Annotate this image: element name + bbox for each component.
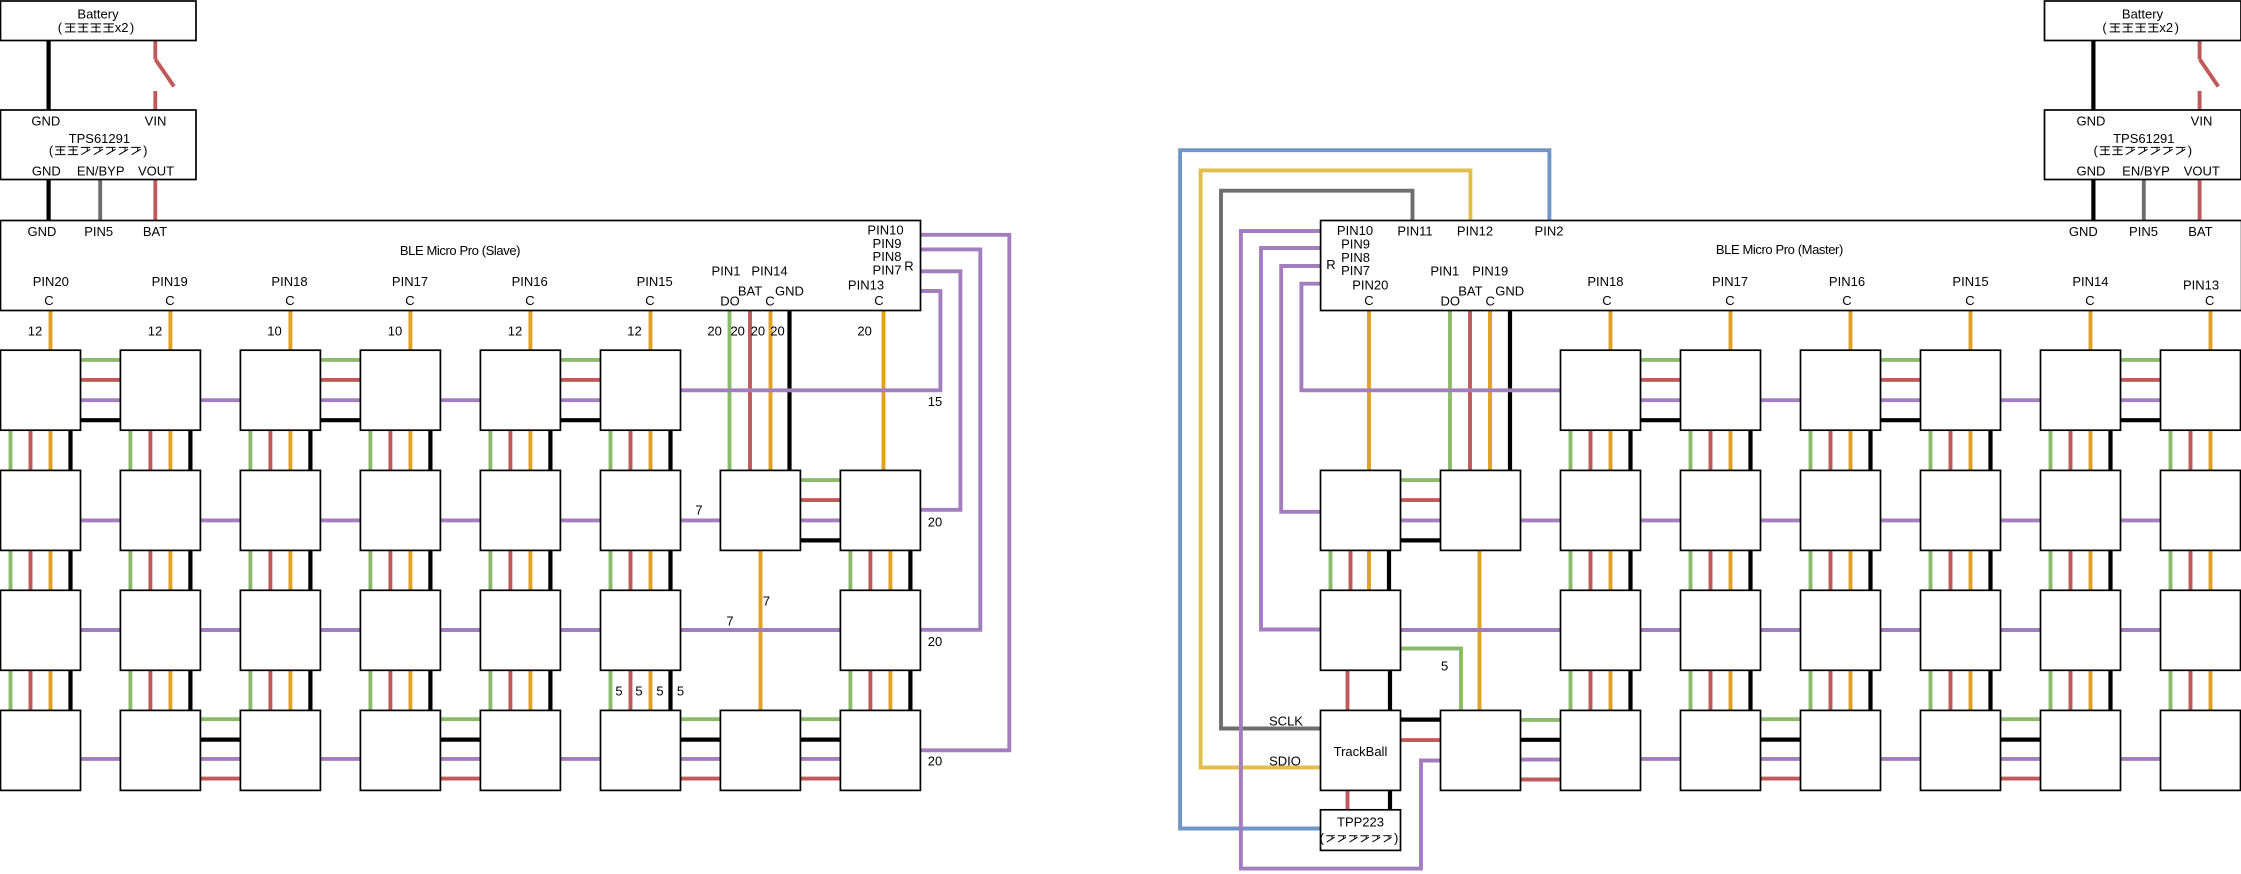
svg-text:10: 10 — [388, 324, 402, 339]
svg-text:PIN1: PIN1 — [1430, 264, 1459, 279]
svg-text:GND: GND — [1495, 284, 1524, 299]
svg-text:BAT: BAT — [143, 224, 167, 239]
svg-text:PIN5: PIN5 — [84, 224, 113, 239]
svg-text:PIN1: PIN1 — [712, 264, 741, 279]
svg-text:C: C — [1725, 293, 1734, 308]
svg-text:): ) — [130, 20, 134, 35]
svg-text:15: 15 — [928, 394, 942, 409]
svg-text:12: 12 — [28, 324, 42, 339]
svg-text:EN/BYP: EN/BYP — [77, 163, 125, 178]
svg-text:PIN18: PIN18 — [271, 274, 307, 289]
svg-text:R: R — [904, 259, 913, 274]
svg-text:C: C — [2085, 293, 2094, 308]
svg-text:): ) — [2188, 143, 2192, 158]
svg-text:C: C — [405, 293, 414, 308]
svg-text:GND: GND — [775, 284, 804, 299]
svg-text:VOUT: VOUT — [2184, 163, 2220, 178]
svg-text:BLE Micro Pro (Master): BLE Micro Pro (Master) — [1716, 242, 1843, 257]
svg-text:7: 7 — [726, 614, 733, 629]
svg-text:PIN16: PIN16 — [1829, 274, 1865, 289]
svg-text:PIN20: PIN20 — [1352, 278, 1388, 293]
svg-text:): ) — [143, 143, 147, 158]
svg-text:5: 5 — [635, 684, 642, 699]
svg-text:DO: DO — [1441, 294, 1461, 309]
svg-text:C: C — [165, 293, 174, 308]
svg-text:): ) — [2175, 20, 2179, 35]
svg-text:(: ( — [1320, 831, 1325, 846]
svg-text:7: 7 — [763, 594, 770, 609]
svg-text:PIN14: PIN14 — [751, 264, 787, 279]
svg-text:GND: GND — [32, 163, 61, 178]
svg-text:PIN7: PIN7 — [1341, 263, 1370, 278]
svg-text:Battery: Battery — [2122, 7, 2164, 22]
svg-text:VIN: VIN — [2191, 114, 2213, 129]
svg-text:GND: GND — [2077, 163, 2106, 178]
svg-text:BAT: BAT — [1458, 284, 1482, 299]
svg-text:C: C — [1842, 293, 1851, 308]
svg-text:PIN5: PIN5 — [2129, 224, 2158, 239]
svg-text:(: ( — [58, 20, 63, 35]
svg-text:PIN16: PIN16 — [512, 274, 548, 289]
svg-text:C: C — [44, 293, 53, 308]
svg-text:12: 12 — [148, 324, 162, 339]
svg-text:TPS61291: TPS61291 — [2113, 131, 2174, 146]
svg-text:5: 5 — [1441, 659, 1448, 674]
svg-text:20: 20 — [751, 324, 765, 339]
svg-text:GND: GND — [28, 224, 57, 239]
svg-text:C: C — [285, 293, 294, 308]
svg-text:5: 5 — [656, 684, 663, 699]
svg-text:PIN12: PIN12 — [1457, 224, 1493, 239]
svg-text:PIN20: PIN20 — [33, 274, 69, 289]
svg-text:x2: x2 — [2159, 20, 2173, 35]
svg-text:PIN15: PIN15 — [1952, 274, 1988, 289]
svg-text:C: C — [874, 293, 883, 308]
svg-text:(: ( — [2094, 143, 2099, 158]
svg-text:SDIO: SDIO — [1269, 754, 1301, 769]
svg-text:C: C — [1486, 294, 1495, 309]
svg-text:C: C — [2205, 293, 2214, 308]
svg-text:GND: GND — [31, 114, 60, 129]
svg-text:PIN11: PIN11 — [1397, 224, 1432, 239]
svg-text:PIN19: PIN19 — [152, 274, 188, 289]
svg-text:PIN13: PIN13 — [2183, 278, 2219, 293]
svg-text:EN/BYP: EN/BYP — [2122, 163, 2170, 178]
svg-text:20: 20 — [928, 754, 942, 769]
svg-text:C: C — [645, 293, 654, 308]
svg-text:5: 5 — [677, 684, 684, 699]
svg-text:Battery: Battery — [77, 7, 119, 22]
svg-text:VIN: VIN — [145, 114, 167, 129]
svg-text:PIN2: PIN2 — [1535, 224, 1564, 239]
svg-text:SCLK: SCLK — [1269, 713, 1303, 728]
svg-text:BAT: BAT — [738, 284, 762, 299]
svg-text:VOUT: VOUT — [138, 163, 174, 178]
svg-text:C: C — [525, 293, 534, 308]
svg-text:(: ( — [2102, 20, 2107, 35]
svg-text:7: 7 — [695, 503, 702, 518]
svg-text:BLE Micro Pro (Slave): BLE Micro Pro (Slave) — [400, 243, 520, 258]
svg-text:(: ( — [49, 143, 54, 158]
svg-text:C: C — [1602, 293, 1611, 308]
svg-text:PIN7: PIN7 — [873, 263, 902, 278]
svg-text:x2: x2 — [115, 20, 129, 35]
svg-text:5: 5 — [615, 684, 622, 699]
svg-text:GND: GND — [2069, 224, 2098, 239]
svg-text:20: 20 — [770, 324, 784, 339]
svg-text:PIN14: PIN14 — [2072, 274, 2108, 289]
svg-text:C: C — [1965, 293, 1974, 308]
svg-text:10: 10 — [267, 324, 281, 339]
svg-text:20: 20 — [730, 324, 744, 339]
svg-text:20: 20 — [857, 324, 871, 339]
svg-text:BAT: BAT — [2188, 224, 2212, 239]
svg-text:20: 20 — [707, 324, 721, 339]
svg-text:TPP223: TPP223 — [1337, 815, 1384, 830]
svg-text:PIN17: PIN17 — [392, 274, 428, 289]
svg-text:12: 12 — [627, 324, 641, 339]
svg-text:PIN13: PIN13 — [848, 278, 884, 293]
svg-text:PIN17: PIN17 — [1712, 274, 1748, 289]
svg-text:TPS61291: TPS61291 — [69, 131, 130, 146]
svg-text:R: R — [1326, 257, 1335, 272]
svg-text:12: 12 — [508, 324, 522, 339]
svg-text:TrackBall: TrackBall — [1334, 744, 1388, 759]
svg-text:C: C — [1364, 293, 1373, 308]
svg-text:C: C — [765, 294, 774, 309]
svg-text:PIN15: PIN15 — [637, 274, 673, 289]
svg-text:): ) — [1394, 831, 1398, 846]
svg-text:GND: GND — [2077, 114, 2106, 129]
svg-text:DO: DO — [720, 294, 740, 309]
svg-text:PIN18: PIN18 — [1587, 274, 1623, 289]
svg-text:20: 20 — [928, 515, 942, 530]
svg-text:PIN19: PIN19 — [1472, 264, 1508, 279]
svg-text:20: 20 — [928, 634, 942, 649]
